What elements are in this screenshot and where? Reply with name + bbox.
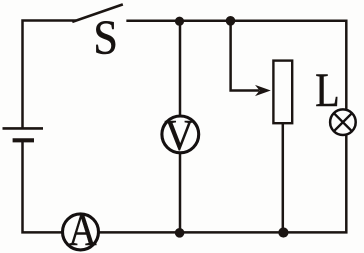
svg-text:A: A: [68, 205, 97, 253]
junction dot top-left (node): [175, 17, 184, 26]
wire rheostat wiper branch: [231, 21, 258, 91]
svg-text:S: S: [93, 10, 118, 65]
wire voltmeter top branch: [179, 21, 182, 115]
battery long plate (positive): [3, 127, 44, 130]
ammeter circle A: [63, 214, 99, 250]
wire ammeter right along bottom to lamp bottom: [99, 135, 346, 232]
junction dot bottom-left (node): [175, 228, 185, 238]
wire battery bottom to bottom-left corner to ammeter: [23, 142, 62, 233]
svg-text:V: V: [165, 113, 194, 160]
voltmeter circle V: [162, 116, 199, 153]
wire top-left horizontal to switch: [23, 21, 75, 128]
rheostat box R: [273, 61, 292, 124]
battery short plate (negative): [13, 138, 34, 142]
wire rheostat bottom branch: [282, 124, 285, 233]
svg-text:L: L: [315, 65, 339, 117]
lamp circle: [330, 109, 356, 135]
wire voltmeter bottom branch: [179, 154, 182, 233]
rheostat wiper arrowhead: [255, 85, 271, 96]
wire switch right to top-right corner down to lamp: [128, 21, 347, 110]
junction dot bottom-right (node): [278, 227, 288, 237]
lamp cross: [334, 113, 352, 131]
junction dot top-right (node): [226, 16, 236, 26]
switch S lever: [74, 5, 122, 22]
